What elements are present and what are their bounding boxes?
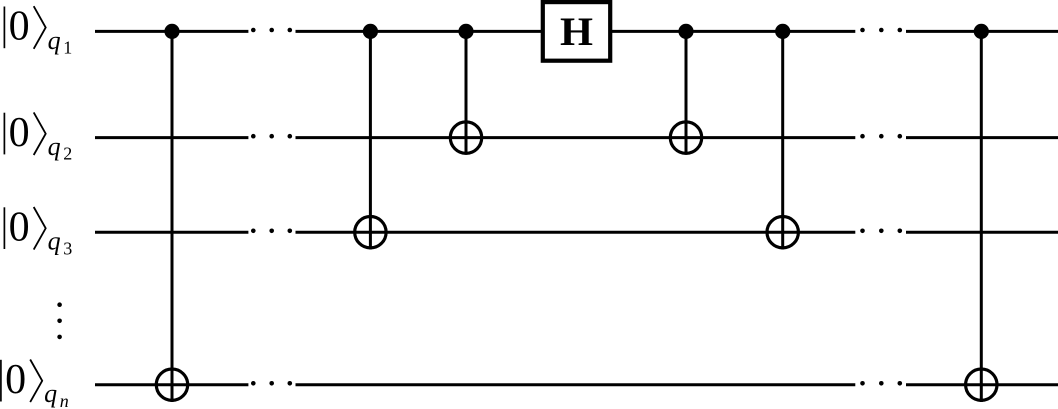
CNOT6 control dot on q1 bbox=[974, 24, 989, 39]
wire q3 segment 2 bbox=[296, 231, 856, 234]
svg-text:0: 0 bbox=[9, 110, 30, 156]
CNOT5 target on q3 bbox=[767, 217, 798, 248]
svg-text:H: H bbox=[560, 9, 593, 54]
wire q2 segment 1 bbox=[95, 136, 248, 139]
CNOT6 vertical wire q1->qn bbox=[980, 31, 983, 402]
svg-text:q: q bbox=[48, 26, 61, 55]
CNOT4 target on q2 bbox=[670, 122, 701, 153]
CNOT1 target on qn bbox=[156, 369, 187, 400]
ellipsis dots q3 left bbox=[251, 229, 292, 234]
CNOT4 control dot on q1 bbox=[678, 24, 693, 39]
ellipsis dots q1 right bbox=[860, 28, 902, 33]
CNOT5 vertical wire q1->q3 bbox=[781, 31, 784, 249]
label |0>_q1 bbox=[4, 4, 72, 58]
CNOT3 vertical wire q1->q2 bbox=[465, 31, 468, 154]
wire qn segment 3 bbox=[906, 383, 1058, 386]
svg-text:0: 0 bbox=[9, 4, 30, 50]
ellipsis dots qn right bbox=[860, 381, 902, 386]
gate H box on q1 bbox=[543, 2, 610, 61]
CNOT3 control dot on q1 bbox=[458, 24, 473, 39]
CNOT1 vertical wire q1->qn bbox=[171, 31, 174, 402]
CNOT5 control dot on q1 bbox=[775, 24, 790, 39]
wire q2 segment 3 bbox=[906, 136, 1058, 139]
wire q1 segment 2 bbox=[296, 30, 544, 33]
wire q1 segment 1 bbox=[95, 30, 248, 33]
svg-text:q: q bbox=[44, 379, 57, 408]
ellipsis dots q2 right bbox=[860, 134, 902, 139]
ellipsis dots q2 left bbox=[251, 134, 292, 139]
CNOT3 target on q2 bbox=[450, 122, 481, 153]
CNOT2 control dot on q1 bbox=[363, 24, 378, 39]
svg-text:n: n bbox=[60, 391, 69, 409]
svg-text:2: 2 bbox=[63, 144, 72, 164]
wire q2 segment 2 bbox=[296, 136, 856, 139]
ellipsis dots q3 right bbox=[860, 229, 902, 234]
svg-text:q: q bbox=[48, 132, 61, 161]
svg-text:q: q bbox=[48, 227, 61, 256]
label |0>_q2 bbox=[4, 110, 72, 164]
svg-text:0: 0 bbox=[5, 357, 26, 403]
svg-text:3: 3 bbox=[63, 238, 72, 258]
wire q3 segment 1 bbox=[95, 231, 248, 234]
wire q3 segment 3 bbox=[906, 231, 1058, 234]
wire q1 segment 3 bbox=[610, 30, 855, 33]
wire qn segment 1 bbox=[95, 383, 248, 386]
vertical ellipsis between q3 and qn bbox=[57, 302, 62, 339]
label |0>_qn bbox=[1, 357, 69, 409]
svg-text:0: 0 bbox=[9, 204, 30, 250]
wire qn segment 2 bbox=[296, 383, 856, 386]
label |0>_q3 bbox=[4, 204, 72, 258]
ellipsis dots q1 left bbox=[251, 28, 292, 33]
CNOT1 control dot on q1 bbox=[164, 24, 179, 39]
svg-text:1: 1 bbox=[63, 38, 72, 58]
CNOT2 vertical wire q1->q3 bbox=[369, 31, 372, 249]
wire q1 segment 4 bbox=[906, 30, 1058, 33]
ellipsis dots qn left bbox=[251, 381, 292, 386]
CNOT6 target on qn bbox=[966, 369, 997, 400]
CNOT2 target on q3 bbox=[355, 217, 386, 248]
CNOT4 vertical wire q1->q2 bbox=[685, 31, 688, 154]
